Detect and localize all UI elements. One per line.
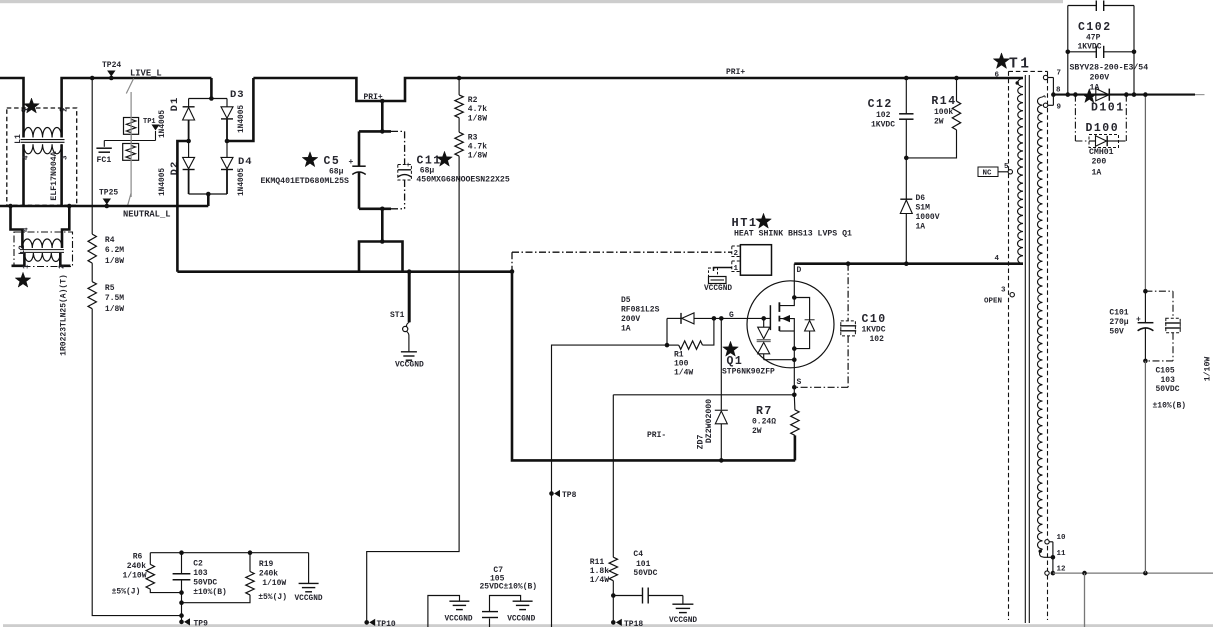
svg-text:101: 101 <box>636 560 651 569</box>
svg-text:1/10W: 1/10W <box>123 572 147 581</box>
svg-text:C102: C102 <box>1078 21 1112 34</box>
svg-text:EKMQ401ETD680ML25S: EKMQ401ETD680ML25S <box>261 177 350 186</box>
wire LIVE drop to bridge top <box>210 78 213 99</box>
node D5/R1 left <box>665 343 670 348</box>
svg-text:SBYV28-200-E3/54: SBYV28-200-E3/54 <box>1070 63 1149 73</box>
svg-text:50VDC: 50VDC <box>633 569 657 578</box>
wire L1 pin4 to NEUTRAL <box>22 144 25 206</box>
svg-text:PRI+: PRI+ <box>364 93 383 102</box>
fuse FC1 box 1 <box>124 118 139 135</box>
node C5 tap <box>380 99 385 104</box>
wire branch down to sheet edge (grey) <box>1084 573 1086 627</box>
wire D101 output down to C101 (grey) <box>1144 95 1146 292</box>
label Q1 <box>723 341 739 356</box>
node L1 pin2 dot <box>60 108 64 112</box>
capacitor C11 (right leg, dash-dot) <box>404 131 406 164</box>
Q1 substrate arrow lead <box>779 319 794 331</box>
Q1 gate bar <box>769 305 771 330</box>
svg-text:1KVDC: 1KVDC <box>871 121 895 130</box>
wire HT1 pin1 to VCCGND <box>714 268 732 272</box>
diode D101 <box>1096 89 1109 101</box>
resistor R2 <box>458 78 460 95</box>
inductor L1 core lines <box>21 139 65 141</box>
star marker C5 <box>302 152 318 167</box>
test point TP24 <box>107 71 115 77</box>
node R2 tap <box>457 76 462 81</box>
svg-text:R1: R1 <box>674 351 684 360</box>
svg-text:102: 102 <box>870 335 885 344</box>
capacitor C2 <box>181 553 183 574</box>
wire NEUTRAL_L <box>0 205 208 208</box>
inductor L1 winding 1 (top) <box>24 127 62 137</box>
star marker at L1 <box>24 98 40 113</box>
sheet bottom border band <box>3 624 1213 627</box>
svg-text:TP10: TP10 <box>377 620 396 627</box>
svg-text:D6: D6 <box>916 194 926 203</box>
svg-text:R7: R7 <box>756 405 773 418</box>
capacitor C102 loop <box>1068 5 1097 7</box>
wire bridge mid-right to PRI+ <box>227 78 253 141</box>
stray wire to ground (left U) <box>428 596 460 627</box>
wire R3 down to TP10 <box>367 156 459 622</box>
svg-text:1A: 1A <box>916 223 926 232</box>
ground VCCGND at HT1 <box>709 277 727 284</box>
T1 core lines <box>1024 75 1026 623</box>
FC1 arrow (grey) <box>130 92 132 197</box>
wire NEUTRAL to L2 pin4 <box>11 206 23 248</box>
ground VCCGND right U <box>513 600 533 602</box>
wire L1 pin3 to NEUTRAL <box>60 144 63 206</box>
test point TP10 <box>364 620 369 625</box>
svg-text:R5: R5 <box>105 284 115 293</box>
svg-text:D: D <box>797 266 802 275</box>
svg-text:±5%(J): ±5%(J) <box>258 593 287 602</box>
svg-text:12: 12 <box>1057 566 1067 574</box>
svg-text:HT1: HT1 <box>732 216 758 230</box>
Q1 body diode loop <box>794 298 809 314</box>
wire L2 pin2 stub <box>60 253 70 266</box>
svg-text:103: 103 <box>1161 376 1176 385</box>
svg-text:Q1: Q1 <box>727 355 744 368</box>
test point TP9 <box>179 620 184 625</box>
bridge top rail <box>189 98 227 100</box>
svg-text:1N4005: 1N4005 <box>238 105 246 133</box>
node NEUTRAL to L2 left <box>8 204 13 209</box>
svg-text:1N4005: 1N4005 <box>238 168 246 196</box>
svg-text:FC1: FC1 <box>97 156 112 165</box>
svg-text:TP18: TP18 <box>624 620 643 627</box>
capacitor C5 (left leg) <box>358 131 361 166</box>
inductor L2 core lines <box>20 249 64 251</box>
svg-text:D2: D2 <box>169 161 181 176</box>
T1 secondary winding <box>1038 97 1043 549</box>
svg-text:VCCGND: VCCGND <box>445 616 473 624</box>
svg-text:CMH01: CMH01 <box>1089 148 1114 157</box>
svg-text:2: 2 <box>62 107 70 112</box>
capacitor C10 (dash-dot branch) <box>847 264 849 321</box>
svg-text:L2: L2 <box>18 245 27 255</box>
svg-text:PRI+: PRI+ <box>726 68 745 77</box>
wire bottom network top rail <box>150 552 308 554</box>
diode D3 <box>226 99 228 107</box>
node bridge mid-left <box>186 139 191 144</box>
resistor R11 <box>609 557 617 581</box>
wire bridge bottom to NEUTRAL <box>207 194 210 206</box>
svg-text:1A: 1A <box>1090 84 1100 93</box>
svg-text:6.2M: 6.2M <box>105 246 124 255</box>
svg-text:R19: R19 <box>259 560 274 569</box>
svg-text:50V: 50V <box>1109 328 1124 337</box>
capacitor symbol FC1 <box>103 141 105 147</box>
svg-text:C10: C10 <box>862 313 887 326</box>
svg-text:D3: D3 <box>230 89 245 101</box>
diode D100 (dash-dot box) <box>1073 92 1078 97</box>
heat sink HT1 box <box>740 245 771 276</box>
diode D4 <box>226 141 228 157</box>
ground VCCGND at C4 <box>682 596 684 605</box>
svg-text:100k: 100k <box>934 108 953 117</box>
svg-text:VCCGND: VCCGND <box>669 617 697 625</box>
svg-text:VCCGND: VCCGND <box>395 361 424 370</box>
node LIVE_L branch to FC1/R4 <box>90 76 95 81</box>
svg-text:R2: R2 <box>468 96 478 105</box>
diode D2 <box>188 141 190 157</box>
svg-text:1: 1 <box>734 265 739 273</box>
capacitor C7 <box>489 619 491 627</box>
svg-text:1A: 1A <box>1092 169 1102 178</box>
wire R5 down to bottom network <box>92 309 181 616</box>
svg-text:11: 11 <box>1057 550 1067 558</box>
capacitor C105 (dash-dot branch) <box>1145 290 1173 292</box>
resistor R4 <box>88 234 96 263</box>
svg-text:C12: C12 <box>868 98 893 111</box>
wire gate to Q1 <box>721 317 770 319</box>
transistor Q1 circle <box>747 281 834 368</box>
svg-text:D4: D4 <box>238 156 253 168</box>
secondary pins 10/11/12 <box>1040 549 1044 557</box>
inductor L2 winding 2 <box>24 253 60 262</box>
svg-text:1A: 1A <box>621 325 631 334</box>
node C12 top <box>904 76 909 81</box>
primary polarity dot <box>1016 81 1019 84</box>
svg-text:2: 2 <box>59 264 67 269</box>
svg-text:ST1: ST1 <box>390 311 405 320</box>
capacitor C12 <box>905 78 907 113</box>
capacitor C5 box bottom <box>359 208 391 211</box>
capacitor (second) in C102 loop <box>1068 51 1097 53</box>
svg-text:OPEN: OPEN <box>984 298 1002 306</box>
T1 primary winding <box>1017 79 1023 264</box>
svg-text:102: 102 <box>876 111 891 120</box>
resistor R3 <box>458 118 460 132</box>
wire R11 branch <box>612 395 614 557</box>
wire drain <box>793 264 795 298</box>
svg-text:S: S <box>797 378 802 387</box>
svg-text:25VDC±10%(B): 25VDC±10%(B) <box>480 583 538 592</box>
resistor R5 <box>88 282 96 309</box>
svg-text:3: 3 <box>1001 287 1006 295</box>
svg-text:2W: 2W <box>752 427 762 436</box>
svg-text:200V: 200V <box>1090 74 1110 83</box>
test point TP8 <box>549 491 554 496</box>
wire sense line from LIVE down to R4 (crosses NEUTRAL) <box>91 78 93 234</box>
svg-text:240k: 240k <box>127 562 146 571</box>
svg-text:4: 4 <box>994 255 999 263</box>
svg-text:+: + <box>1136 316 1141 325</box>
svg-text:1/4W: 1/4W <box>674 369 693 378</box>
svg-text:240k: 240k <box>259 570 278 579</box>
svg-text:6: 6 <box>994 72 999 80</box>
svg-text:DZ2W02000: DZ2W02000 <box>705 399 714 443</box>
svg-text:C105: C105 <box>1156 367 1175 376</box>
zener ZD7 <box>720 318 722 409</box>
wire PRI- rail <box>177 270 512 273</box>
resistor R1 <box>667 344 679 346</box>
svg-text:S1M: S1M <box>916 204 931 213</box>
dash-dot wire to HT1 pin2 <box>512 251 732 253</box>
svg-text:+: + <box>349 158 354 167</box>
svg-text:TP1: TP1 <box>143 118 156 126</box>
svg-text:PRI-: PRI- <box>647 431 666 440</box>
wire LIVE_L input top-left <box>0 78 24 111</box>
svg-text:68μ: 68μ <box>420 167 435 176</box>
NC pin 5 <box>978 167 998 177</box>
svg-text:TP25: TP25 <box>99 189 118 198</box>
wire S node to R11 line <box>613 394 794 396</box>
star marker at L2 <box>15 272 31 287</box>
capacitor C5 box top <box>359 130 391 133</box>
svg-text:1: 1 <box>23 107 31 112</box>
svg-text:1.8k: 1.8k <box>590 567 609 576</box>
svg-text:STP6NK90ZFP: STP6NK90ZFP <box>722 368 775 377</box>
svg-text:4.7k: 4.7k <box>468 143 487 152</box>
svg-text:L1: L1 <box>14 134 23 144</box>
diode D6 <box>905 158 907 199</box>
ground VCCGND left U <box>449 600 469 602</box>
svg-text:1/8W: 1/8W <box>468 115 487 124</box>
wire source out of circle <box>793 360 795 395</box>
svg-text:4.7k: 4.7k <box>468 105 487 114</box>
test point TP1 <box>155 131 157 141</box>
svg-text:270μ: 270μ <box>1109 318 1128 327</box>
svg-text:D1: D1 <box>169 97 181 112</box>
wire between FC1 boxes to TP1 <box>104 140 155 142</box>
wire C5 tap down <box>381 101 384 131</box>
gate protection zeners <box>761 316 766 321</box>
node NEUTRAL to L2 right <box>67 204 72 209</box>
svg-text:50VDC: 50VDC <box>193 579 217 588</box>
svg-text:1N4005: 1N4005 <box>159 168 167 196</box>
svg-text:4: 4 <box>23 227 31 232</box>
svg-text:R3: R3 <box>468 134 478 143</box>
ground VCCGND at ST1 <box>408 337 410 352</box>
spark gap ST1 <box>408 272 411 323</box>
wire drain rail to T1 pin4 <box>794 262 1023 265</box>
svg-text:1KVDC: 1KVDC <box>862 326 886 335</box>
svg-text:9: 9 <box>1057 104 1062 112</box>
Q1 source lead <box>779 330 794 332</box>
svg-text:200: 200 <box>1092 158 1107 167</box>
inductor L1 dashed box <box>7 108 77 205</box>
svg-text:D5: D5 <box>621 296 631 305</box>
svg-text:5: 5 <box>1004 163 1009 171</box>
svg-text:+: + <box>406 162 410 170</box>
svg-text:C4: C4 <box>633 550 643 559</box>
svg-text:R14: R14 <box>931 95 956 108</box>
svg-text:10: 10 <box>1057 534 1067 542</box>
wire gate-drive from TP8 line <box>552 345 668 627</box>
wire bridge mid-left to PRI- <box>177 141 188 272</box>
svg-text:RF081L2S: RF081L2S <box>621 306 660 315</box>
svg-text:103: 103 <box>193 569 208 578</box>
resistor R14 <box>956 78 958 101</box>
wire R4-R5 <box>91 263 93 282</box>
wire secondary return (grey) <box>1053 572 1213 574</box>
svg-text:VCCGND: VCCGND <box>507 616 535 624</box>
svg-text:2W: 2W <box>934 118 944 127</box>
svg-text:D101: D101 <box>1091 102 1125 115</box>
bridge bottom rail <box>189 193 227 195</box>
svg-text:D100: D100 <box>1086 122 1120 135</box>
svg-text:±10%(B): ±10%(B) <box>193 588 227 597</box>
svg-text:R6: R6 <box>133 553 143 562</box>
wire L2 pin1 stub <box>12 253 25 266</box>
svg-text:R11: R11 <box>590 558 605 567</box>
inductor L1 winding 2 (bottom) <box>24 144 62 154</box>
svg-text:C5: C5 <box>324 155 341 168</box>
svg-text:3: 3 <box>62 155 70 160</box>
svg-text:1: 1 <box>23 264 31 269</box>
wire LIVE_L from L1 pin2 to bridge <box>62 78 212 110</box>
test point TP25 <box>103 199 111 205</box>
svg-text:VCCGND: VCCGND <box>704 285 732 293</box>
svg-text:1/10W: 1/10W <box>1203 357 1213 382</box>
diode D1 <box>188 99 190 107</box>
svg-text:450MXG68MOOESN22X25: 450MXG68MOOESN22X25 <box>416 176 509 185</box>
node R14 top <box>954 76 959 81</box>
svg-text:1N4005: 1N4005 <box>159 110 167 138</box>
wire source internal <box>764 359 795 361</box>
wire NEUTRAL to L2 top-right <box>62 206 69 248</box>
wire C101 down to secondary return (grey) <box>1144 361 1146 573</box>
svg-text:1/8W: 1/8W <box>468 152 487 161</box>
node L1 pin1 polarity dot <box>22 108 26 112</box>
OPEN pin 3 <box>1010 293 1014 297</box>
svg-text:NEUTRAL_L: NEUTRAL_L <box>123 210 171 220</box>
resistor R19 <box>249 553 251 572</box>
inductor L2 dash-dot box <box>14 232 73 267</box>
svg-text:47P: 47P <box>1086 34 1101 43</box>
fuse FC1 box 2 <box>123 144 139 161</box>
svg-text:TP9: TP9 <box>194 620 209 627</box>
sheet top border band <box>0 0 1063 3</box>
svg-text:200V: 200V <box>621 315 640 324</box>
svg-text:68μ: 68μ <box>329 168 344 177</box>
wire secondary output <box>1053 94 1195 96</box>
svg-text:ELF17N004A: ELF17N004A <box>50 151 59 200</box>
svg-text:T1: T1 <box>1009 57 1031 73</box>
resistor R6 <box>149 553 151 565</box>
svg-text:1R0223TLN25(A)(T): 1R0223TLN25(A)(T) <box>59 274 68 356</box>
svg-text:7: 7 <box>1057 70 1062 78</box>
svg-text:100: 100 <box>674 360 689 369</box>
svg-text:1/10W: 1/10W <box>262 579 286 588</box>
svg-text:0.24Ω: 0.24Ω <box>752 418 776 427</box>
ground VCCGND at R19 rail <box>308 553 310 584</box>
svg-text:8: 8 <box>1056 87 1061 95</box>
test point TP18 <box>612 596 614 623</box>
diode D5 <box>667 317 681 319</box>
svg-text:1/8W: 1/8W <box>105 257 124 266</box>
svg-text:2: 2 <box>734 250 739 258</box>
svg-text:±5%(J): ±5%(J) <box>112 588 141 597</box>
svg-text:TP24: TP24 <box>102 61 121 70</box>
secondary pins 7/8/9 <box>1043 96 1046 98</box>
svg-text:C2: C2 <box>193 560 203 569</box>
svg-text:1000V: 1000V <box>916 213 940 222</box>
Q1 drain lead <box>779 298 794 306</box>
Q1 channel segments <box>778 302 780 312</box>
transformer T1 label <box>993 53 1009 69</box>
svg-text:1KVDC: 1KVDC <box>1078 43 1102 52</box>
svg-text:±10%(B): ±10%(B) <box>1153 402 1187 411</box>
node bridge mid-right <box>225 139 230 144</box>
svg-text:NC: NC <box>983 170 993 178</box>
svg-text:1/4W: 1/4W <box>590 576 609 585</box>
svg-text:R4: R4 <box>105 236 115 245</box>
svg-text:LIVE_L: LIVE_L <box>130 69 162 79</box>
capacitor C101 <box>1144 291 1146 323</box>
T1 dashed boundary <box>1009 70 1048 72</box>
node gate / ZD7 tap <box>719 316 724 321</box>
svg-text:C101: C101 <box>1109 309 1128 318</box>
svg-text:1/8W: 1/8W <box>105 305 124 314</box>
resistor R7 <box>793 395 796 410</box>
svg-text:50VDC: 50VDC <box>1156 385 1180 394</box>
inductor L2 winding 1 <box>22 239 62 248</box>
svg-text:HEAT SHINK BHS13 LVPS Q1: HEAT SHINK BHS13 LVPS Q1 <box>734 230 852 239</box>
capacitor C4 <box>613 595 642 597</box>
svg-text:VCCGND: VCCGND <box>295 595 323 603</box>
wire C5 bottom to PRI- <box>381 209 384 242</box>
svg-text:4: 4 <box>23 155 31 160</box>
svg-text:7.5M: 7.5M <box>105 294 124 303</box>
svg-text:TP8: TP8 <box>562 491 577 500</box>
wire PRI+ rail with jog <box>253 78 1023 101</box>
